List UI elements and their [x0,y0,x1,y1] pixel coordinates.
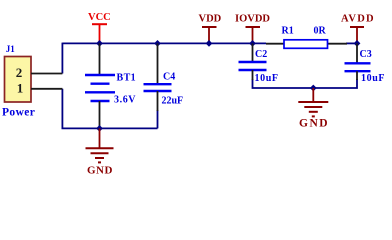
svg-text:BT1: BT1 [117,73,137,84]
capacitor C3 [345,63,371,71]
svg-text:0R: 0R [314,26,327,37]
svg-text:C2: C2 [255,49,267,60]
svg-text:10uF: 10uF [255,73,279,84]
pin battery top [99,43,101,75]
wire C2 bottom bus to C3 [253,79,358,88]
svg-text:3.6V: 3.6V [114,95,136,106]
svg-text:IOVDD: IOVDD [235,14,270,25]
svg-text:2: 2 [16,65,22,80]
svg-text:J1: J1 [6,44,16,54]
pin J1-1 [31,88,62,90]
node C4 junction [154,40,161,47]
pin R1 right [328,43,348,45]
pin J1-2 [31,73,62,75]
svg-text:Power: Power [2,107,35,119]
wire J1 pin 1 to bottom bus [62,89,157,129]
svg-text:R1: R1 [282,26,294,37]
svg-text:1: 1 [17,81,24,96]
connector J1 body [5,57,32,103]
pin C2 top [252,43,254,62]
wire resistor right to AVDD node [346,42,357,44]
node VCC junction [96,40,103,47]
power symbol IOVDD [246,27,261,43]
svg-text:AVDD: AVDD [341,14,375,25]
wire left drop to J1 pin 2 [61,43,63,74]
svg-text:GND: GND [87,165,113,177]
pin C4 top [157,43,159,84]
battery BT1 [85,75,115,101]
pin C3 bottom [356,71,358,80]
pin battery bottom [99,101,101,128]
svg-text:VCC: VCC [88,12,111,23]
wire C4 bottom to bottom bus [157,110,159,128]
ground GND left [86,128,114,162]
wire top bus VCC net [62,42,266,44]
pin R1 left [266,43,284,45]
svg-text:C4: C4 [163,72,175,83]
pin C4 bottom [157,91,159,111]
svg-text:VDD: VDD [199,14,222,25]
node battery-GND junction [96,125,103,132]
node bottom GND junction [310,85,317,92]
ground GND right [298,88,328,116]
svg-text:10uF: 10uF [361,73,385,84]
capacitor C4 [144,84,172,91]
power symbol VCC [92,24,107,43]
capacitor C2 [239,62,267,70]
node IOVDD junction [249,40,256,47]
power symbol AVDD [350,27,364,43]
pin C2 bottom [252,70,254,80]
node AVDD junction [354,40,361,47]
resistor R1 [284,40,328,49]
svg-text:GND: GND [299,118,329,130]
pin C3 top [356,43,358,63]
power symbol VDD [202,27,217,43]
svg-text:22uF: 22uF [162,96,184,107]
node VDD junction [206,40,213,47]
svg-text:C3: C3 [360,49,372,60]
